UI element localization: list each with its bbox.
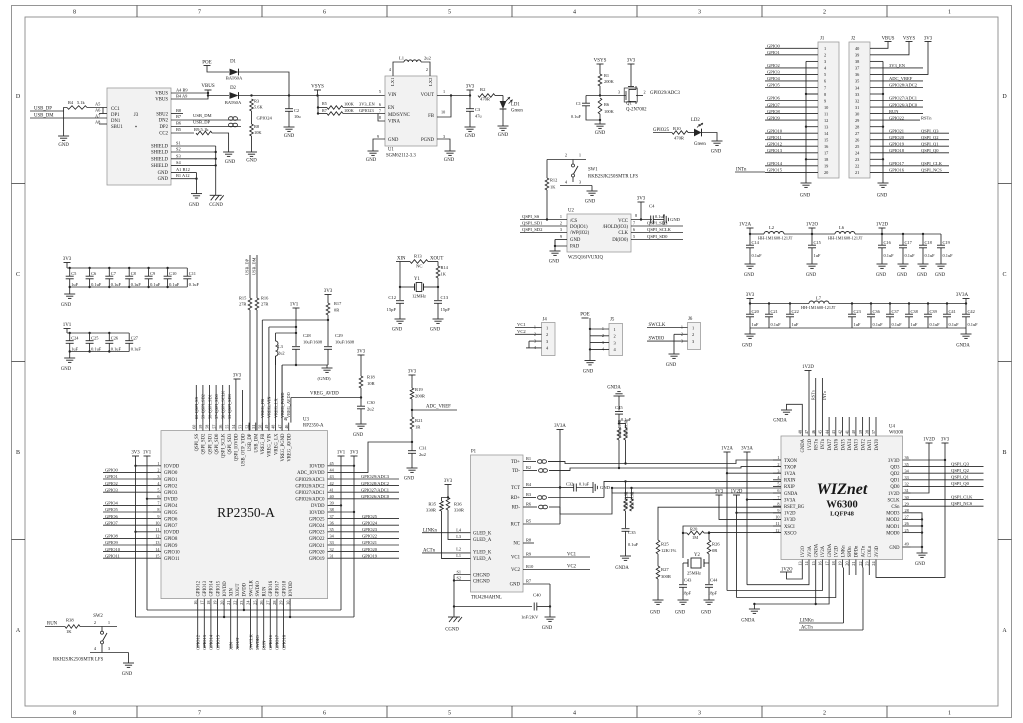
- wires U4 bottom rails: [747, 568, 809, 585]
- svg-text:GPIO13: GPIO13: [203, 580, 208, 596]
- svg-text:1uF: 1uF: [792, 322, 799, 327]
- svg-text:31: 31: [905, 488, 909, 493]
- svg-text:60-QSPI_SS: 60-QSPI_SS: [194, 396, 199, 419]
- U4 right pins: [903, 459, 911, 461]
- svg-text:0.1uF: 0.1uF: [150, 282, 161, 287]
- svg-text:C26: C26: [111, 336, 119, 341]
- svg-text:B7: B7: [176, 114, 182, 119]
- svg-text:3V3: 3V3: [941, 438, 950, 443]
- svg-text:38: 38: [865, 430, 870, 434]
- svg-text:15pF: 15pF: [387, 307, 397, 312]
- capacitor C11 0.1uF: [186, 268, 188, 276]
- svg-text:C36: C36: [873, 309, 881, 314]
- wire P1 GND to ground: [549, 584, 551, 617]
- svg-text:Q1: Q1: [626, 102, 632, 107]
- capacitor C5 1uF: [69, 267, 71, 269]
- svg-text:VSYS: VSYS: [903, 37, 916, 42]
- svg-text:VC2: VC2: [511, 568, 521, 573]
- svg-text:GPIO9: GPIO9: [164, 544, 178, 549]
- svg-text:VREG_PGND: VREG_PGND: [281, 433, 286, 461]
- wire USB_DP from edge: [30, 110, 64, 112]
- svg-text:TD+: TD+: [511, 460, 520, 465]
- USB_OTP_VDD stub: [242, 390, 244, 423]
- svg-text:3: 3: [618, 90, 620, 95]
- resistor R25 12K/1%: [656, 540, 660, 554]
- svg-text:32: 32: [905, 482, 909, 487]
- resistor R18 10R: [360, 355, 362, 376]
- svg-text:LX1: LX1: [390, 77, 395, 86]
- svg-text:36: 36: [905, 455, 909, 460]
- capacitor C15 1uF: [811, 234, 813, 245]
- capacitor C10 0.1uF: [166, 267, 168, 269]
- svg-text:0.1uF: 0.1uF: [968, 322, 979, 327]
- chassis ground CGND below J3: [210, 194, 222, 196]
- capacitor C1 0.1uF: [585, 96, 587, 104]
- U4 bottom pins: [801, 560, 803, 568]
- svg-text:GND: GND: [284, 134, 295, 139]
- svg-text:12: 12: [775, 528, 779, 533]
- svg-text:0.1uF: 0.1uF: [628, 542, 639, 547]
- svg-text:0.1uF: 0.1uF: [771, 322, 782, 327]
- svg-text:QSPI_SD0: QSPI_SD0: [215, 433, 220, 454]
- svg-text:QSPI_SS: QSPI_SS: [522, 214, 540, 219]
- svg-text:GND: GND: [388, 138, 399, 143]
- svg-text:B: B: [1002, 450, 1006, 456]
- svg-text:VREG_FB: VREG_FB: [260, 399, 265, 418]
- svg-text:5: 5: [824, 72, 826, 77]
- wire VREG_VIN net: [269, 326, 296, 328]
- svg-text:3V3: 3V3: [637, 197, 646, 202]
- ground right of C32: [592, 482, 594, 493]
- svg-text:3V3A: 3V3A: [741, 447, 753, 452]
- svg-text:DPDn: DPDn: [855, 545, 860, 557]
- svg-text:Green: Green: [511, 109, 523, 114]
- svg-text:0.1uF: 0.1uF: [925, 253, 936, 258]
- svg-text:25MHz: 25MHz: [687, 571, 701, 576]
- svg-text:27: 27: [905, 515, 909, 520]
- svg-text:SHIELD: SHIELD: [151, 158, 169, 163]
- svg-text:45: 45: [330, 461, 334, 466]
- svg-text:GND: GND: [670, 217, 681, 222]
- svg-text:RUN: RUN: [889, 109, 899, 114]
- svg-text:DI(IO0): DI(IO0): [612, 238, 628, 243]
- svg-text:11: 11: [824, 111, 828, 116]
- wire D1 to VSYS node: [239, 72, 290, 96]
- svg-text:QSPI_SS: QSPI_SS: [195, 433, 200, 451]
- svg-text:EN: EN: [388, 106, 395, 111]
- svg-text:TD-: TD-: [512, 469, 520, 474]
- svg-text:GND: GND: [61, 367, 72, 372]
- ground below R27: [653, 599, 664, 601]
- svg-text:100K: 100K: [344, 102, 355, 107]
- svg-text:PAD: PAD: [570, 245, 580, 250]
- svg-text:C45: C45: [615, 405, 623, 410]
- svg-text:1uF: 1uF: [854, 322, 861, 327]
- svg-text:GPIO28/ADC2: GPIO28/ADC2: [361, 481, 389, 486]
- svg-text:PGND: PGND: [421, 138, 435, 143]
- svg-text:C5: C5: [71, 271, 77, 276]
- svg-text:GNDA: GNDA: [741, 619, 755, 624]
- svg-text:QSPI_IOVDD: QSPI_IOVDD: [235, 433, 240, 461]
- svg-text:GND: GND: [583, 370, 594, 375]
- svg-text:GPIO28/ADC2: GPIO28/ADC2: [889, 83, 917, 88]
- svg-text:C31: C31: [419, 446, 427, 451]
- svg-text:30: 30: [905, 495, 909, 500]
- wire RXIP net: [560, 488, 781, 514]
- svg-text:ADC_VREF: ADC_VREF: [426, 405, 451, 410]
- capacitor C37 0.1uF: [889, 302, 891, 304]
- svg-text:A4 B9: A4 B9: [176, 88, 188, 93]
- svg-text:DAT0: DAT0: [875, 438, 880, 450]
- svg-text:GPIO20: GPIO20: [309, 550, 325, 555]
- svg-text:9: 9: [824, 98, 826, 103]
- svg-text:CGND: CGND: [445, 628, 459, 633]
- resistor R15 27R: [248, 298, 252, 310]
- svg-text:10: 10: [824, 105, 828, 110]
- svg-text:R38: R38: [66, 618, 74, 623]
- svg-text:0.1uF: 0.1uF: [131, 282, 142, 287]
- svg-text:9: 9: [377, 134, 379, 139]
- svg-text:GPIO17: GPIO17: [276, 580, 281, 596]
- svg-text:3V3: 3V3: [627, 59, 636, 64]
- svg-text:GPIO13: GPIO13: [202, 634, 207, 650]
- capacitor C6 0.1uF: [88, 267, 90, 269]
- svg-text:GND: GND: [225, 160, 236, 165]
- ground below J3: [191, 193, 202, 195]
- svg-text:13: 13: [824, 125, 828, 130]
- wire EN R5: [317, 106, 319, 108]
- svg-text:IOVDD: IOVDD: [289, 581, 294, 597]
- ethernet controller U4 W6300: [781, 436, 903, 560]
- svg-text:1K: 1K: [550, 185, 556, 190]
- wire RXIN net: [604, 481, 781, 497]
- svg-text:39: 39: [330, 501, 334, 506]
- U3 top pins: [195, 423, 197, 431]
- svg-text:QSPI_Q3: QSPI_Q3: [921, 128, 939, 133]
- svg-text:27R: 27R: [239, 302, 246, 307]
- svg-text:8: 8: [73, 711, 76, 717]
- svg-text:C3: C3: [475, 107, 481, 112]
- U3 bottom net labels: [197, 607, 199, 648]
- ground below C28/C29: [326, 365, 328, 368]
- svg-text:GPIO19: GPIO19: [309, 557, 325, 562]
- resistor R36 330R: [446, 498, 450, 511]
- svg-text:(GND): (GND): [317, 376, 330, 381]
- svg-text:0.1uF: 0.1uF: [111, 347, 122, 352]
- svg-text:C8: C8: [131, 271, 137, 276]
- svg-text:GPIO9: GPIO9: [767, 115, 781, 120]
- svg-text:R8: R8: [254, 124, 260, 129]
- svg-text:58: 58: [205, 425, 210, 429]
- svg-text:1V2A: 1V2A: [784, 472, 796, 477]
- svg-text:3V3: 3V3: [324, 289, 333, 294]
- svg-text:1uF: 1uF: [814, 253, 821, 258]
- svg-text:VOUT: VOUT: [421, 93, 434, 98]
- svg-text:GND: GND: [549, 260, 560, 265]
- wire RSET_BG to R25: [658, 507, 781, 540]
- svg-text:C25: C25: [91, 336, 99, 341]
- svg-text:3V3: 3V3: [924, 37, 933, 42]
- capacitor C25 0.1uF: [88, 332, 90, 334]
- svg-text:GND: GND: [510, 583, 521, 588]
- svg-text:1: 1: [546, 325, 548, 330]
- svg-text:6: 6: [157, 494, 159, 499]
- svg-text:WIZnet: WIZnet: [817, 481, 868, 498]
- wire D2 to VSYS: [239, 95, 386, 97]
- svg-text:1: 1: [692, 325, 694, 330]
- svg-text:GPIO23: GPIO23: [309, 531, 325, 536]
- wire TXON net: [548, 460, 781, 464]
- svg-text:5: 5: [777, 482, 779, 487]
- svg-text:RSTn: RSTn: [815, 438, 820, 450]
- capacitor C18 0.1uF: [922, 233, 924, 235]
- svg-text:R7: R7: [526, 579, 532, 584]
- svg-text:1uF: 1uF: [71, 282, 78, 287]
- svg-text:VREG_LX: VREG_LX: [273, 398, 278, 418]
- capacitor C44 18pF: [708, 563, 710, 584]
- svg-text:0.1uF: 0.1uF: [91, 282, 102, 287]
- svg-text:GPIO5: GPIO5: [767, 83, 781, 88]
- svg-text:470R: 470R: [480, 97, 491, 102]
- svg-text:USB_OTP_VDD: USB_OTP_VDD: [241, 433, 246, 466]
- svg-text:RKH2SJK250SMTR LFS: RKH2SJK250SMTR LFS: [53, 658, 104, 663]
- svg-text:R25: R25: [661, 542, 669, 547]
- J1 ground bus: [805, 61, 807, 183]
- capacitor C39 0.1uF: [927, 302, 929, 304]
- svg-text:B1 A12: B1 A12: [176, 173, 190, 178]
- svg-text:J6: J6: [688, 317, 693, 322]
- svg-text:25: 25: [905, 528, 909, 533]
- wire USB_DM vertical: [256, 255, 258, 298]
- svg-text:VREG_FB: VREG_FB: [261, 434, 266, 455]
- svg-text:INTn: INTn: [822, 390, 827, 400]
- svg-text:3V3A: 3V3A: [554, 424, 566, 429]
- svg-text:C16: C16: [884, 240, 892, 245]
- svg-text:GND: GND: [404, 477, 415, 482]
- svg-text:GND: GND: [392, 328, 403, 333]
- svg-text:GPIO21: GPIO21: [362, 540, 377, 545]
- svg-text:56-QSPI_SCLK: 56-QSPI_SCLK: [221, 390, 226, 419]
- wires MOD pins bus: [911, 513, 923, 547]
- svg-text:W25Q16JVUXIQ: W25Q16JVUXIQ: [568, 256, 603, 261]
- svg-text:GPIO8: GPIO8: [105, 534, 119, 539]
- resistor R35 330R: [442, 498, 449, 502]
- capacitor C19 0.1uF: [940, 234, 942, 245]
- resistor R19 200R: [411, 375, 413, 388]
- svg-text:DAT3: DAT3: [855, 438, 860, 450]
- svg-text:QSPI_NCS: QSPI_NCS: [951, 501, 973, 506]
- svg-text:GND: GND: [465, 134, 476, 139]
- ground below J2: [878, 182, 889, 184]
- svg-text:GPIO6: GPIO6: [767, 96, 781, 101]
- svg-text:LX2: LX2: [428, 77, 433, 86]
- svg-text:0R: 0R: [712, 548, 718, 553]
- svg-text:GPIO28/ADC2: GPIO28/ADC2: [295, 484, 325, 489]
- svg-text:41: 41: [844, 430, 849, 434]
- svg-text:GND: GND: [600, 485, 611, 490]
- svg-text:10: 10: [441, 110, 445, 115]
- svg-text:C29: C29: [335, 333, 343, 338]
- svg-text:RSTn: RSTn: [811, 389, 816, 400]
- svg-text:R6: R6: [526, 502, 532, 507]
- svg-text:3: 3: [698, 711, 701, 717]
- svg-text:VC2: VC2: [567, 565, 577, 570]
- svg-text:3V3D: 3V3D: [888, 459, 900, 464]
- ground GNDA below C35: [620, 555, 631, 557]
- svg-text:0.1uF: 0.1uF: [169, 282, 180, 287]
- svg-text:31: 31: [855, 105, 859, 110]
- svg-text:XIN: XIN: [230, 588, 235, 597]
- svg-text:R5: R5: [322, 101, 327, 106]
- wire USB_DP vertical: [249, 255, 251, 298]
- svg-text:VC1: VC1: [517, 322, 526, 327]
- svg-text:TXOP: TXOP: [784, 465, 797, 470]
- svg-text:R18: R18: [367, 375, 375, 380]
- svg-text:GPIO1: GPIO1: [767, 50, 780, 55]
- ground below LD1: [498, 125, 509, 127]
- svg-text:IOVDD: IOVDD: [223, 581, 228, 597]
- svg-text:D: D: [1002, 94, 1007, 100]
- svg-text:25: 25: [252, 601, 257, 605]
- U4 GND pin 49: [903, 546, 911, 548]
- svg-text:MOD3: MOD3: [886, 512, 900, 517]
- ground GND below USB_DP: [58, 135, 69, 137]
- svg-text:/CS: /CS: [570, 219, 578, 224]
- svg-text:GPIO12: GPIO12: [197, 580, 202, 596]
- svg-text:GNDA: GNDA: [956, 344, 970, 349]
- svg-text:GNDA: GNDA: [773, 419, 787, 424]
- svg-text:1V2D: 1V2D: [835, 545, 840, 557]
- svg-text:RXIP: RXIP: [784, 485, 795, 490]
- termination resistors R29 R31 49.9R: [625, 481, 627, 499]
- svg-text:0.1uF: 0.1uF: [571, 114, 582, 119]
- svg-text:GPIO17: GPIO17: [275, 634, 280, 650]
- svg-text:DAT5: DAT5: [841, 438, 846, 450]
- svg-text:YLED_K: YLED_K: [473, 551, 492, 556]
- svg-text:L3: L3: [456, 534, 461, 539]
- svg-text:16: 16: [818, 561, 823, 565]
- wire VINA: [378, 114, 385, 122]
- svg-text:GPIO25: GPIO25: [362, 514, 378, 519]
- svg-text:QSPI_NCS: QSPI_NCS: [921, 168, 942, 173]
- svg-text:R5: R5: [526, 519, 532, 524]
- svg-text:R17: R17: [334, 301, 342, 306]
- svg-text:TXON: TXON: [784, 459, 798, 464]
- connector J4: [542, 323, 556, 356]
- svg-text:COLn: COLn: [868, 545, 873, 557]
- svg-text:53: 53: [238, 425, 243, 429]
- svg-text:QSPI_Q3: QSPI_Q3: [951, 461, 970, 466]
- svg-text:D1: D1: [230, 60, 236, 65]
- svg-text:DAT4: DAT4: [848, 438, 853, 450]
- svg-text:21: 21: [851, 561, 856, 565]
- svg-text:C2: C2: [294, 108, 299, 113]
- svg-text:C38: C38: [911, 309, 919, 314]
- svg-text:18pF: 18pF: [682, 591, 692, 596]
- capacitor C23 1uF: [851, 302, 853, 304]
- svg-text:1V2D: 1V2D: [888, 492, 900, 497]
- svg-text:IOVDD: IOVDD: [164, 465, 180, 470]
- connector J6: [688, 323, 701, 350]
- svg-text:18: 18: [206, 601, 211, 605]
- svg-text:MOD2: MOD2: [886, 518, 900, 523]
- svg-text:SHIELD: SHIELD: [151, 151, 169, 156]
- svg-text:47: 47: [804, 430, 809, 434]
- svg-text:GND: GND: [650, 611, 661, 616]
- svg-text:GPIO23: GPIO23: [359, 108, 374, 113]
- svg-text:10R: 10R: [367, 381, 376, 386]
- svg-text:R35: R35: [428, 502, 436, 507]
- capacitor C38 1uF: [908, 302, 910, 304]
- svg-text:VINA: VINA: [388, 120, 401, 125]
- svg-text:GPIO19: GPIO19: [889, 141, 905, 146]
- svg-text:W6300: W6300: [889, 431, 904, 436]
- svg-text:U3: U3: [303, 418, 309, 423]
- svg-text:MOD1: MOD1: [886, 525, 900, 530]
- capacitor C7 0.1uF: [108, 267, 110, 269]
- resistor R9 5.1k: [171, 132, 194, 134]
- svg-text:48: 48: [798, 430, 803, 434]
- svg-text:QD0: QD0: [890, 485, 900, 490]
- svg-text:2: 2: [565, 153, 567, 158]
- svg-text:47: 47: [277, 425, 282, 429]
- svg-text:R8: R8: [526, 538, 532, 543]
- wires VREG nets to top pins: [275, 356, 277, 423]
- svg-text:1V1: 1V1: [337, 451, 346, 456]
- svg-text:GPIO18: GPIO18: [282, 580, 287, 596]
- svg-text:GND: GND: [800, 194, 811, 199]
- ground cap bank1: [69, 287, 71, 294]
- capacitor C28 10uF/1608: [295, 333, 297, 346]
- svg-text:GPIO4: GPIO4: [105, 501, 119, 506]
- svg-text:33: 33: [330, 540, 334, 545]
- svg-text:SWCLK: SWCLK: [248, 633, 253, 650]
- svg-text:GPIO6: GPIO6: [164, 517, 178, 522]
- wire TXOP net: [549, 467, 781, 471]
- svg-text:3V3: 3V3: [408, 370, 417, 375]
- svg-text:R16: R16: [261, 296, 269, 301]
- svg-text:1V2D: 1V2D: [923, 438, 935, 443]
- svg-text:23: 23: [855, 157, 859, 162]
- svg-text:GND: GND: [711, 150, 722, 155]
- svg-text:0.1uF: 0.1uF: [884, 253, 895, 258]
- svg-text:42: 42: [330, 481, 334, 486]
- svg-text:INTn: INTn: [821, 438, 826, 449]
- svg-text:GPIO0: GPIO0: [105, 468, 119, 473]
- svg-text:RUN: RUN: [262, 640, 267, 650]
- svg-text:S2: S2: [456, 576, 461, 581]
- capacitor C42 0.1uF: [965, 304, 967, 315]
- svg-text:GPIO16: GPIO16: [889, 168, 905, 173]
- U4 top pins: [801, 428, 803, 436]
- svg-text:CHGND: CHGND: [473, 580, 490, 585]
- svg-text:22: 22: [858, 561, 863, 565]
- resistor R16 27R: [255, 298, 259, 310]
- svg-text:L7: L7: [816, 296, 822, 301]
- svg-text:QSPI_Q1: QSPI_Q1: [951, 475, 970, 480]
- svg-text:DP1: DP1: [111, 113, 120, 118]
- svg-text:HH-1M1608-121JT: HH-1M1608-121JT: [828, 236, 863, 241]
- wire cap bank2 bottom rail: [70, 351, 130, 353]
- svg-text:58-QSPI_SD1: 58-QSPI_SD1: [207, 394, 212, 419]
- svg-text:GPIO17: GPIO17: [889, 161, 905, 166]
- resistor R8 10K: [250, 124, 254, 136]
- svg-text:3: 3: [698, 10, 701, 16]
- ground below J1: [801, 182, 812, 184]
- svg-text:GND: GND: [806, 273, 817, 278]
- svg-text:1uF: 1uF: [911, 322, 918, 327]
- svg-text:11: 11: [775, 521, 779, 526]
